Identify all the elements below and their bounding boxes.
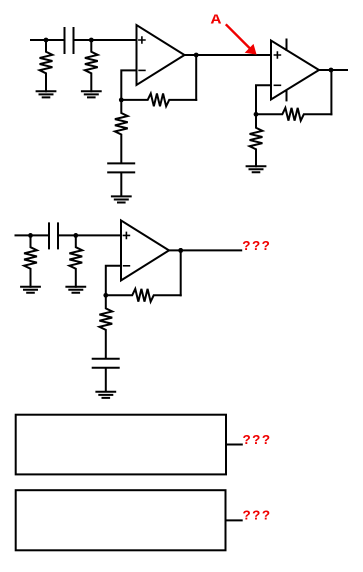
resistor R2f (U2 feedback) bbox=[256, 108, 331, 121]
wire U2 feedback up to output bbox=[330, 70, 332, 114]
capacitor C3a (series coupling) bbox=[49, 223, 58, 248]
node J1d output junction bbox=[194, 53, 199, 58]
node J1b junction bbox=[89, 38, 94, 43]
svg-text:???: ??? bbox=[243, 509, 272, 524]
resistor R3f (feedback) bbox=[106, 289, 181, 302]
wire feedback up to output of U3 bbox=[180, 250, 182, 295]
svg-text:???: ??? bbox=[243, 434, 272, 449]
op-amp U2 minus sign bbox=[274, 84, 280, 86]
svg-text:???: ??? bbox=[242, 240, 271, 255]
ground under C1b bbox=[112, 196, 131, 202]
wire C3a to op-amp noninverting input bbox=[59, 234, 122, 236]
node J3d output junction of U3 bbox=[178, 248, 183, 253]
capacitor C3b (gain-set, to ground) bbox=[93, 359, 119, 368]
wire input to C3a network bbox=[16, 234, 49, 236]
node J3b junction bbox=[73, 233, 78, 238]
op-amp U2 positive supply pin stub bbox=[286, 40, 288, 51]
ground under R1b bbox=[82, 91, 101, 97]
wire U2 output bbox=[319, 69, 347, 71]
node J3a input junction bbox=[28, 233, 33, 238]
resistor R1a (input shunt) bbox=[40, 40, 53, 91]
wire box 1 output bbox=[226, 444, 242, 446]
op-amp U2 negative supply pin stub bbox=[286, 91, 288, 101]
resistor R3g (gain-set, to C3b) bbox=[99, 295, 112, 358]
resistor R3b (bias shunt) bbox=[69, 235, 82, 286]
wire C1b to ground bbox=[120, 173, 122, 195]
node J1c feedback junction bbox=[119, 98, 124, 103]
capacitor C1b (gain-set, to ground) bbox=[108, 163, 134, 172]
wire box 2 output bbox=[226, 519, 242, 521]
op-amp U2 triangle bbox=[271, 41, 319, 100]
resistor R2g (U2 inverting input to ground) bbox=[250, 114, 263, 166]
wire feedback up to output of U1 bbox=[195, 55, 197, 100]
ground under C3b bbox=[96, 392, 115, 398]
node J1a input junction bbox=[44, 38, 49, 43]
op-amp U1 triangle bbox=[137, 25, 185, 85]
block box 2 bbox=[16, 490, 226, 550]
svg-text:A: A bbox=[211, 14, 223, 29]
resistor R1g (gain-set, to C1b) bbox=[115, 100, 128, 162]
op-amp U3 minus sign bbox=[124, 265, 130, 267]
wire node A: U1 output to U2 noninverting input bbox=[185, 54, 272, 56]
wire U3 output to ??? label bbox=[169, 249, 241, 251]
node J2d output junction of U2 bbox=[329, 68, 334, 73]
resistor R1f (feedback) bbox=[121, 94, 196, 107]
resistor R1b (bias shunt) bbox=[85, 40, 98, 91]
op-amp U1 plus sign bbox=[139, 37, 145, 43]
wire inverting input of U2 down to feedback node bbox=[256, 85, 271, 114]
resistor R3a (input shunt) bbox=[24, 235, 37, 286]
ground under R3a bbox=[21, 287, 40, 293]
node J3c feedback junction bbox=[103, 293, 108, 298]
op-amp U1 minus sign bbox=[139, 69, 145, 71]
capacitor C1a (series coupling) bbox=[65, 28, 74, 53]
op-amp U3 triangle bbox=[121, 220, 169, 280]
wire C1a to op-amp noninverting input bbox=[74, 39, 137, 41]
wire inverting input of U3 down to feedback node bbox=[106, 266, 121, 296]
ground under R1a bbox=[37, 91, 56, 97]
node J2c feedback junction of U2 bbox=[254, 112, 259, 117]
wire input to C1a network bbox=[31, 39, 64, 41]
node J3d output junction bbox=[178, 248, 183, 253]
arrowhead of node A arrow bbox=[245, 44, 257, 55]
ground under R3b bbox=[66, 287, 85, 293]
ground under R2g bbox=[247, 166, 266, 172]
op-amp U3 plus sign bbox=[123, 232, 129, 238]
op-amp U2 plus sign bbox=[274, 52, 280, 58]
arrow pointing to node A wire bbox=[226, 24, 250, 48]
block box 1 bbox=[16, 415, 226, 475]
wire inverting input of U1 down to feedback node bbox=[121, 70, 136, 100]
wire C3b to ground bbox=[105, 369, 107, 391]
